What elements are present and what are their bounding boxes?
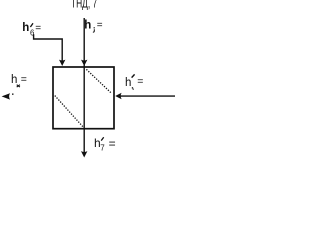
heater box [53,67,114,129]
arrowhead into box top (center inlet) [81,60,87,66]
arrowhead into box top (left inlet) [59,60,65,66]
node dot left [12,94,14,95]
dotted diagonal upper [86,69,110,92]
svg-text:h: h [22,22,29,34]
label hx = [11,74,27,88]
wire right inlet [121,95,176,97]
label hj' = [125,74,143,89]
wire leader from h6' [34,34,63,62]
label hj = [84,19,103,32]
svg-text:=: = [97,20,103,31]
svg-text:7: 7 [100,144,105,153]
svg-text:=: = [35,23,41,34]
svg-text:h: h [11,74,17,86]
svg-text:=: = [137,76,143,88]
svg-text:h: h [84,19,91,31]
arrowhead bottom outlet [81,151,87,157]
wire main vertical (steam in / condensate out) [83,18,85,152]
dotted diagonal lower [55,96,83,127]
svg-text:h: h [125,77,131,89]
arrowhead right inlet (points left into box) [115,93,121,99]
svg-text:=: = [21,74,27,86]
arrowhead left outlet (points left) [2,93,10,99]
label h7' = [94,136,116,153]
svg-text:=: = [109,136,116,150]
label h6' = [22,22,41,38]
svg-text:ТНД, 7: ТНД, 7 [71,0,97,10]
